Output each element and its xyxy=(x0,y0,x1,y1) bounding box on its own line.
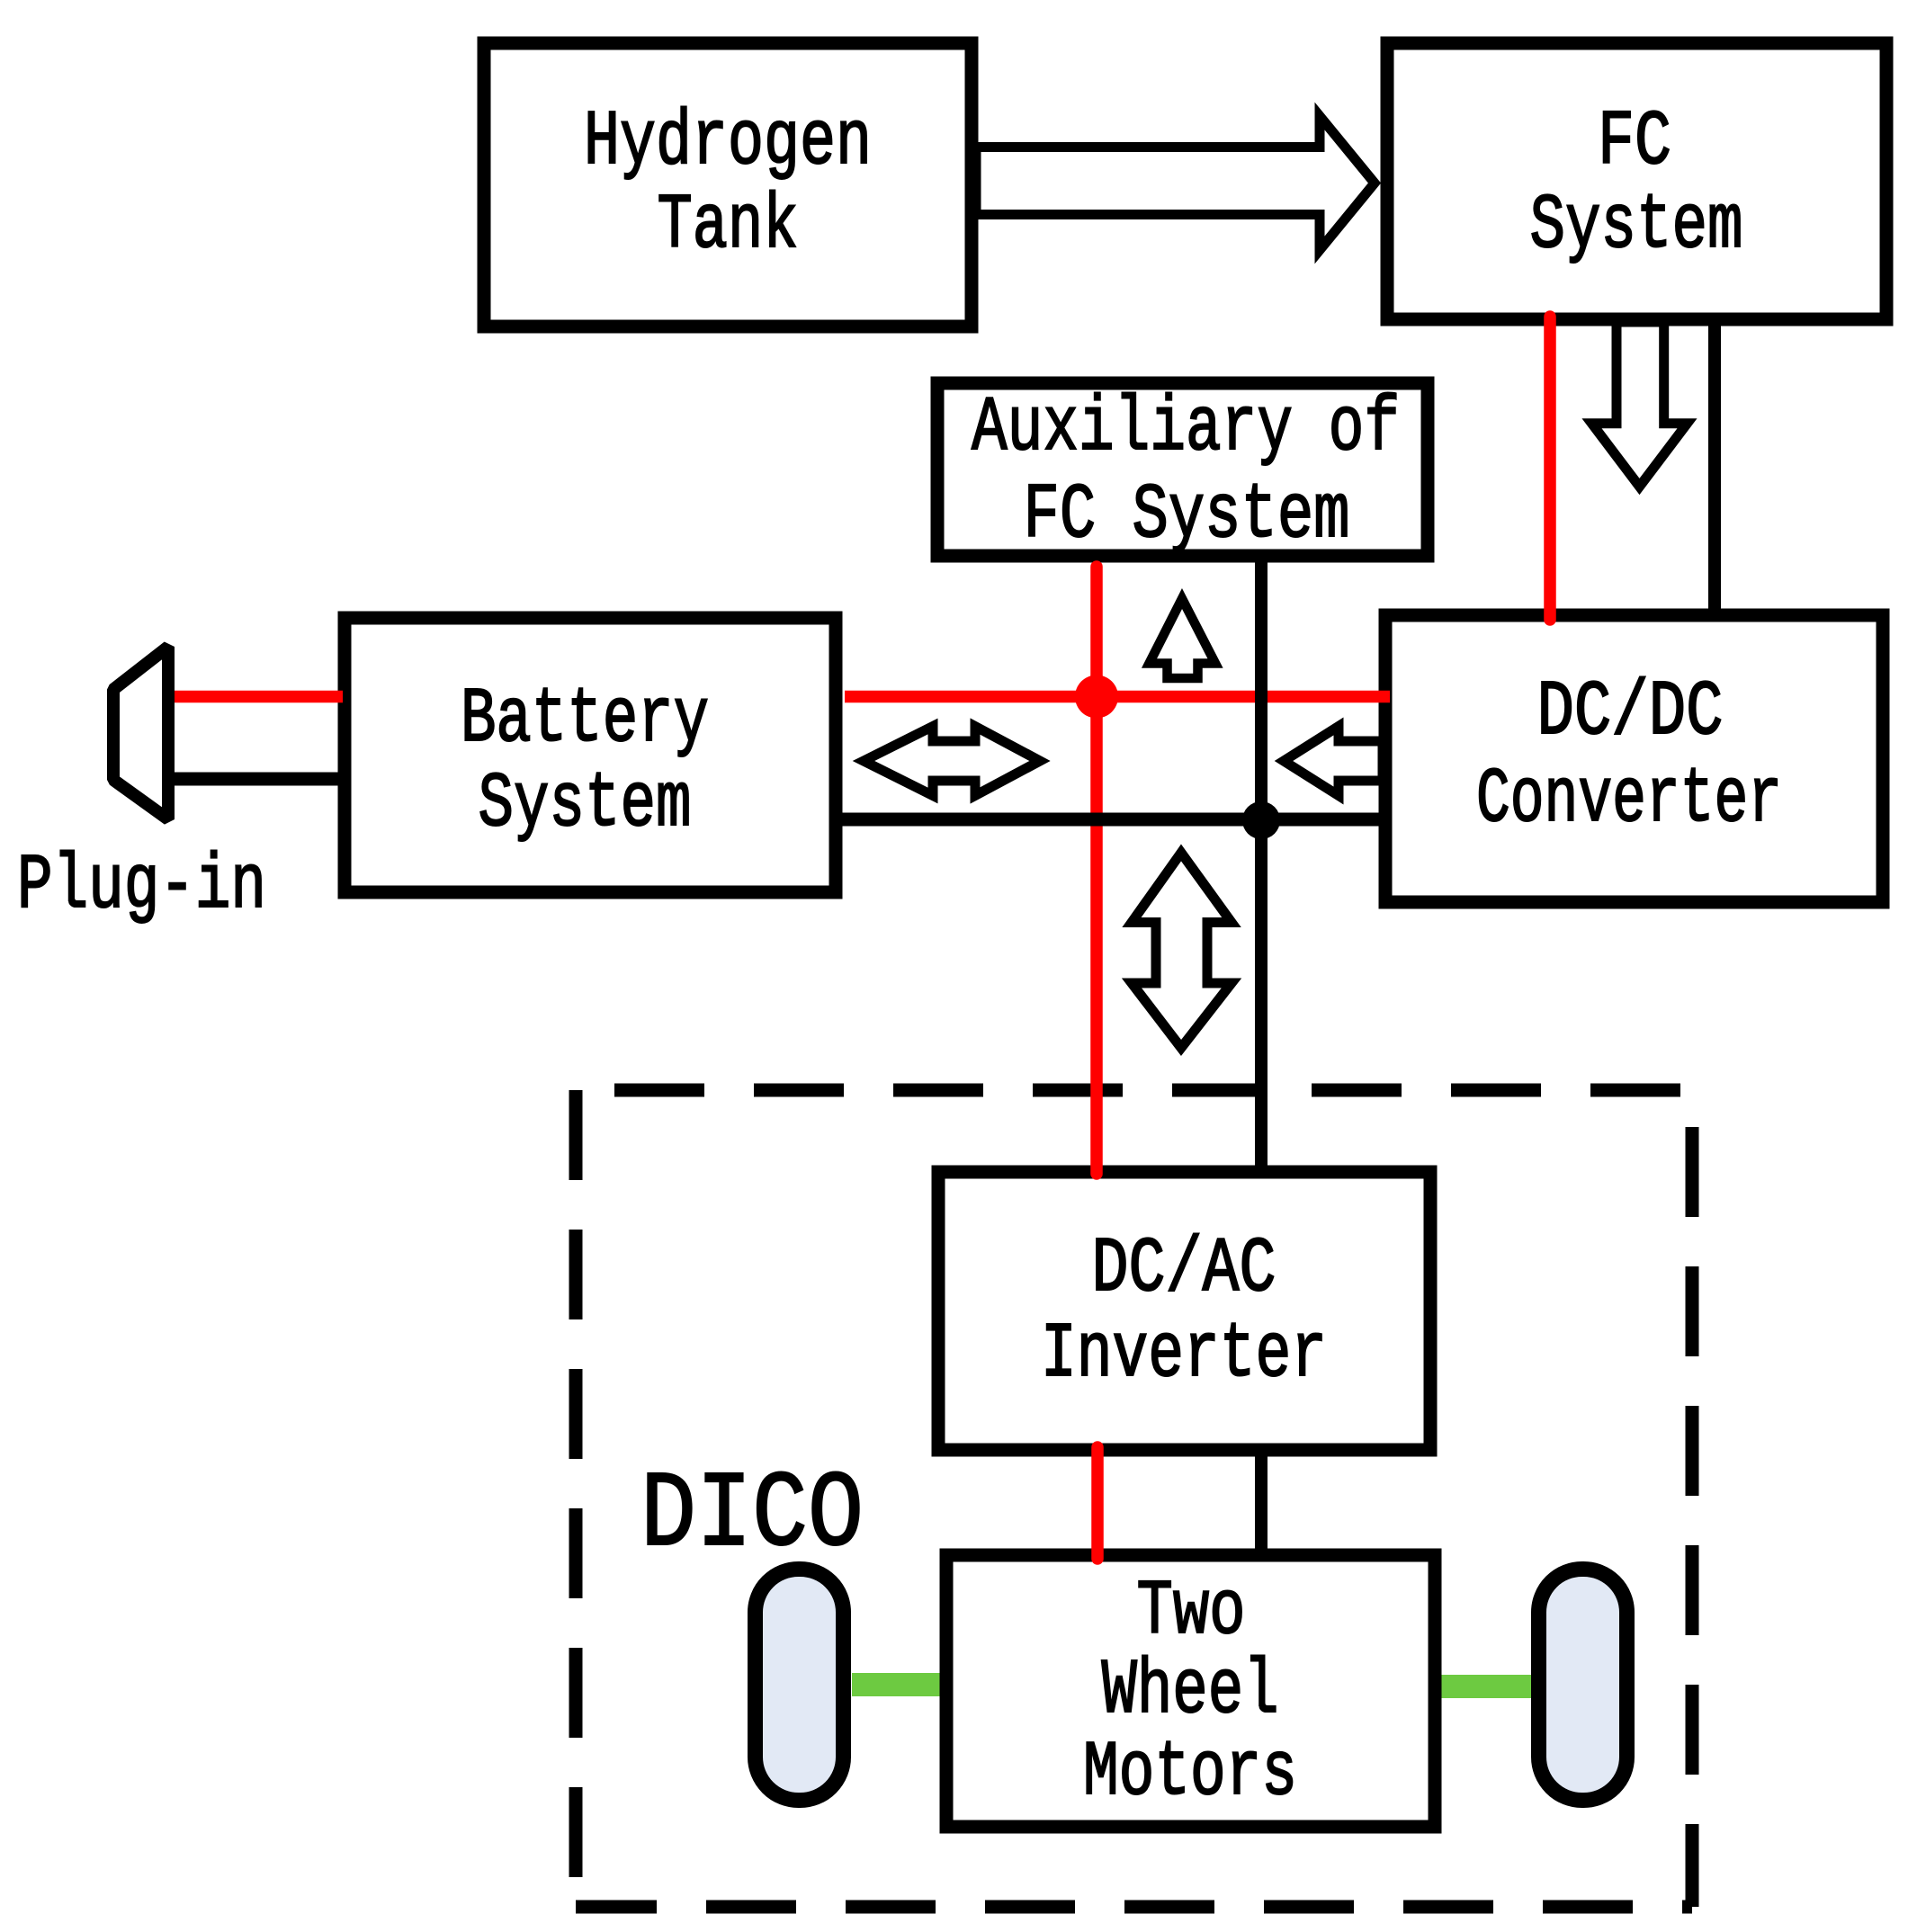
svg-text:FC System: FC System xyxy=(1024,471,1350,559)
box Battery System xyxy=(345,618,836,892)
svg-text:DC/AC: DC/AC xyxy=(1092,1225,1276,1313)
black wire auxiliary vertical xyxy=(1255,556,1268,1172)
svg-text:System: System xyxy=(479,760,692,848)
label Battery System xyxy=(461,675,709,848)
label FC System xyxy=(1530,98,1743,270)
hollow arrow FC down to DC/DC xyxy=(1592,322,1688,487)
box Auxiliary of FC System xyxy=(937,383,1428,556)
black wire battery to DC/DC horizontal xyxy=(836,813,1385,827)
label DC/AC Inverter xyxy=(1041,1225,1327,1399)
hollow arrow hydrogen to FC xyxy=(976,116,1375,250)
black wire FC right vertical xyxy=(1708,319,1721,615)
label DC/DC Converter xyxy=(1476,668,1782,844)
label Hydrogen Tank xyxy=(584,98,872,270)
red wire inverter to motors xyxy=(1091,1447,1104,1559)
red wire auxiliary vertical xyxy=(1090,567,1103,1174)
box FC System xyxy=(1387,43,1886,319)
svg-text:Wheel: Wheel xyxy=(1102,1647,1279,1735)
svg-text:Hydrogen: Hydrogen xyxy=(584,98,872,186)
svg-text:Converter: Converter xyxy=(1476,756,1782,844)
svg-text:DICO: DICO xyxy=(640,1455,864,1578)
box Two Wheel Motors xyxy=(946,1555,1435,1827)
svg-text:Motors: Motors xyxy=(1083,1729,1297,1817)
svg-text:Auxiliary of: Auxiliary of xyxy=(972,384,1400,472)
svg-text:Plug-in: Plug-in xyxy=(17,842,266,930)
label Two Wheel Motors xyxy=(1083,1568,1297,1817)
hollow double arrow bus to inverter xyxy=(1132,853,1232,1048)
black node junction xyxy=(1242,801,1280,839)
box DC/AC Inverter xyxy=(938,1172,1430,1450)
hollow arrow DC/DC to bus xyxy=(1284,727,1383,796)
dashed DICO boundary box xyxy=(576,1090,1692,1907)
svg-text:FC: FC xyxy=(1598,98,1671,186)
red wire battery to DC/DC xyxy=(845,691,1390,703)
red wire FC to DC/DC xyxy=(1544,317,1556,620)
svg-text:DC/DC: DC/DC xyxy=(1537,668,1724,756)
box Hydrogen Tank xyxy=(484,43,972,326)
box DC/DC Converter xyxy=(1385,615,1883,902)
black wire inverter to motors xyxy=(1255,1450,1268,1555)
label Auxiliary of FC System xyxy=(972,384,1400,559)
green axle right xyxy=(1435,1675,1531,1698)
plug connector symbol xyxy=(113,647,168,819)
red node junction xyxy=(1075,675,1118,719)
hollow double arrow battery exchange xyxy=(864,727,1040,796)
right wheel xyxy=(1539,1570,1627,1801)
svg-text:Inverter: Inverter xyxy=(1041,1310,1327,1399)
svg-text:Tank: Tank xyxy=(658,182,799,270)
svg-text:Battery: Battery xyxy=(461,675,709,764)
green axle left xyxy=(852,1673,946,1696)
svg-text:System: System xyxy=(1530,182,1743,270)
red wire plug to battery xyxy=(175,691,343,703)
hollow arrow up to auxiliary xyxy=(1150,599,1216,679)
left wheel xyxy=(756,1570,844,1801)
black wire plug to battery xyxy=(175,773,345,786)
svg-text:Two: Two xyxy=(1137,1568,1246,1656)
